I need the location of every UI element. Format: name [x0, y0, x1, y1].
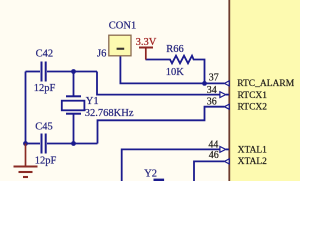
- svg-text:12pF: 12pF: [34, 83, 56, 94]
- svg-text:32.768KHz: 32.768KHz: [85, 108, 134, 119]
- svg-text:37: 37: [209, 73, 219, 84]
- svg-text:3.3V: 3.3V: [136, 37, 157, 48]
- svg-text:Y1: Y1: [86, 96, 99, 107]
- svg-text:12pF: 12pF: [35, 155, 57, 166]
- svg-text:XTAL1: XTAL1: [238, 146, 268, 156]
- svg-text:C42: C42: [36, 48, 54, 59]
- svg-text:46: 46: [209, 150, 219, 161]
- svg-text:44: 44: [208, 139, 218, 150]
- svg-text:34: 34: [207, 85, 217, 96]
- svg-text:C45: C45: [35, 122, 53, 133]
- svg-text:R66: R66: [166, 44, 184, 55]
- svg-text:RTCX2: RTCX2: [238, 103, 268, 113]
- svg-text:Y2: Y2: [144, 168, 157, 179]
- svg-text:10K: 10K: [166, 67, 185, 78]
- svg-text:RTC_ALARM: RTC_ALARM: [237, 79, 295, 89]
- svg-text:RTCX1: RTCX1: [238, 91, 268, 101]
- svg-text:J6: J6: [97, 48, 106, 59]
- svg-text:36: 36: [207, 96, 217, 107]
- svg-text:XTAL2: XTAL2: [238, 157, 268, 167]
- svg-text:CON1: CON1: [109, 21, 136, 32]
